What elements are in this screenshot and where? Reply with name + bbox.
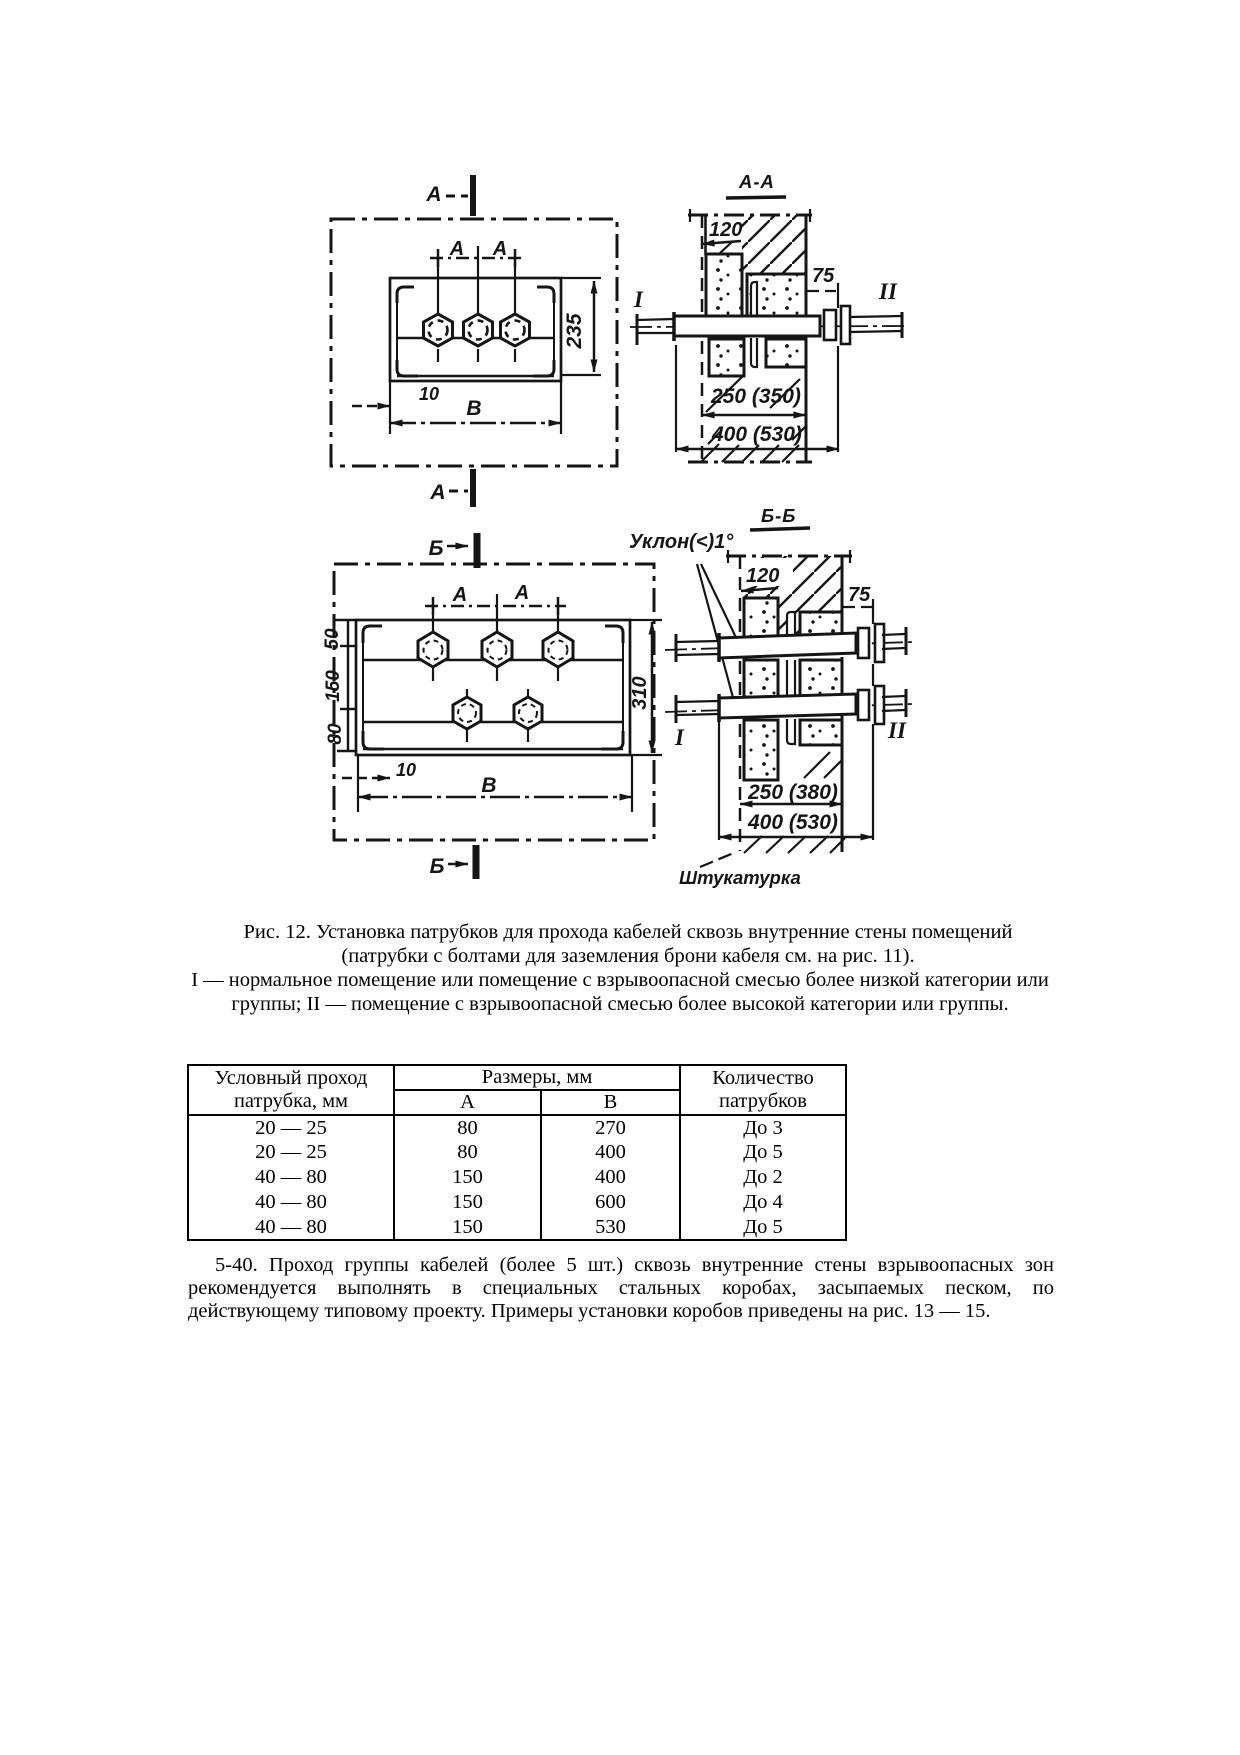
svg-text:А: А [492, 238, 507, 260]
svg-text:Б: Б [430, 855, 445, 878]
svg-text:Уклон(<)1°: Уклон(<)1° [629, 531, 734, 553]
svg-text:Б: Б [429, 537, 444, 560]
svg-text:I: I [674, 725, 685, 750]
svg-text:400 (530): 400 (530) [711, 423, 802, 446]
svg-text:В: В [466, 397, 481, 420]
svg-text:10: 10 [419, 384, 439, 404]
svg-text:400 (530): 400 (530) [747, 811, 838, 834]
svg-text:Штукатурка: Штукатурка [679, 867, 801, 888]
svg-text:120: 120 [709, 219, 742, 241]
svg-text:А: А [425, 183, 441, 206]
svg-text:80: 80 [325, 723, 346, 745]
svg-text:А: А [429, 481, 445, 504]
svg-text:В: В [481, 774, 496, 797]
svg-text:А: А [452, 584, 467, 606]
svg-text:150: 150 [323, 670, 344, 702]
svg-text:А-А: А-А [738, 171, 775, 192]
svg-text:120: 120 [746, 565, 779, 587]
svg-text:10: 10 [396, 760, 416, 780]
svg-text:75: 75 [848, 584, 871, 606]
svg-text:II: II [878, 279, 898, 304]
svg-text:75: 75 [812, 265, 835, 287]
svg-text:310: 310 [629, 676, 651, 709]
svg-text:50: 50 [322, 628, 343, 650]
svg-text:Б-Б: Б-Б [761, 505, 796, 526]
svg-text:250 (350): 250 (350) [710, 385, 801, 408]
svg-text:235: 235 [563, 313, 586, 349]
svg-text:I: I [633, 287, 644, 312]
svg-text:II: II [887, 718, 907, 743]
svg-text:А: А [514, 582, 529, 604]
svg-text:А: А [449, 238, 464, 260]
svg-text:250 (380): 250 (380) [747, 781, 838, 804]
